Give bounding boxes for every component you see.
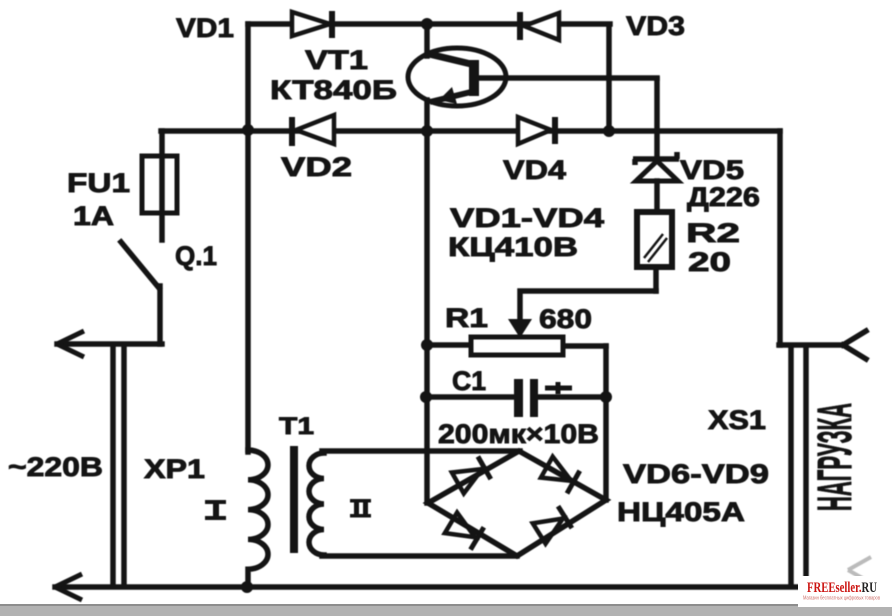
svg-text:R2: R2 xyxy=(686,218,740,248)
svg-text:VT1: VT1 xyxy=(305,45,368,75)
svg-text:VD1: VD1 xyxy=(176,13,234,43)
svg-text:VD4: VD4 xyxy=(503,155,566,185)
svg-text:C1: C1 xyxy=(452,366,486,396)
svg-text:Д226: Д226 xyxy=(687,182,760,212)
svg-text:T1: T1 xyxy=(279,413,314,440)
svg-text:R1: R1 xyxy=(445,303,488,333)
svg-text:1А: 1А xyxy=(73,201,114,231)
svg-text:КЦ410В: КЦ410В xyxy=(448,232,578,262)
svg-text:FREEseller.RU: FREEseller.RU xyxy=(807,580,877,596)
svg-text:НЦ405А: НЦ405А xyxy=(617,497,745,527)
svg-text:VD2: VD2 xyxy=(281,152,352,182)
svg-text:Q.1: Q.1 xyxy=(175,241,217,271)
svg-text:~220В: ~220В xyxy=(8,452,103,482)
svg-text:20: 20 xyxy=(688,247,731,277)
svg-text:КТ840Б: КТ840Б xyxy=(270,75,397,105)
svg-text:200мк×10В: 200мк×10В xyxy=(438,419,599,449)
svg-text:XP1: XP1 xyxy=(144,454,205,484)
svg-text:VD1-VD4: VD1-VD4 xyxy=(450,203,604,233)
svg-text:680: 680 xyxy=(539,304,592,334)
svg-text:FU1: FU1 xyxy=(67,168,130,198)
svg-text:НАГРУЗКА: НАГРУЗКА xyxy=(809,403,862,511)
svg-text:VD6-VD9: VD6-VD9 xyxy=(623,459,769,489)
svg-text:VD5: VD5 xyxy=(680,155,744,185)
svg-text:VD3: VD3 xyxy=(626,11,685,41)
svg-text:Магазин бесплатных цифровых то: Магазин бесплатных цифровых товаров xyxy=(803,596,880,602)
svg-text:XS1: XS1 xyxy=(708,405,766,435)
